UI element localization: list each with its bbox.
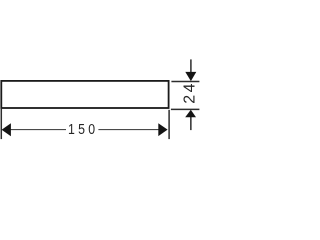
- arrowhead right (150): [158, 123, 167, 136]
- arrowhead left (150): [2, 123, 11, 136]
- arrowhead bottom (24): [185, 110, 196, 118]
- arrowhead top (24): [185, 72, 196, 81]
- extension line top (24 dim): [171, 81, 199, 83]
- dimension line 24 top segment: [190, 59, 192, 72]
- extension line bottom (24 dim): [171, 108, 200, 110]
- extension line left (150 dim): [0, 108, 2, 139]
- dimension line 150 left segment: [10, 129, 67, 131]
- bar profile outline: [1, 81, 168, 108]
- extension line right (150 dim): [168, 110, 170, 139]
- dimension line 150 right segment: [98, 129, 159, 131]
- dimension line 24 bottom segment: [190, 117, 192, 130]
- svg-text:150: 150: [68, 121, 98, 137]
- svg-text:24: 24: [182, 81, 199, 104]
